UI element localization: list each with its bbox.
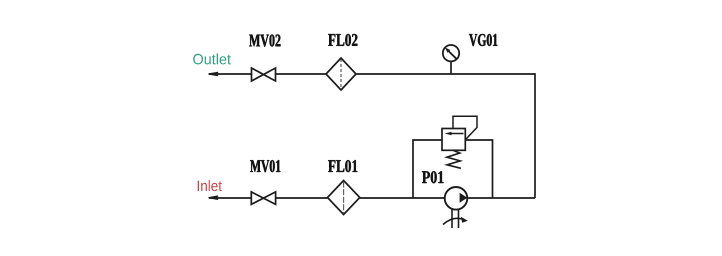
regulator pilot flag bbox=[453, 116, 477, 139]
wire bottom main line segment 1 bbox=[209, 197, 251, 199]
wire regulator loop right bbox=[465, 140, 492, 198]
label MV01 bbox=[250, 160, 280, 172]
filter FL01 diamond bbox=[328, 181, 360, 215]
wire bottom main line segment 3 bbox=[360, 197, 445, 199]
label VG01 bbox=[469, 34, 497, 46]
arrow inlet bbox=[209, 196, 219, 199]
gauge VG01 circle bbox=[443, 45, 459, 61]
label FL02 bbox=[328, 34, 357, 46]
gauge VG01 stem bbox=[450, 62, 452, 75]
pump P01 circle bbox=[445, 187, 468, 210]
arrow outlet bbox=[209, 72, 219, 75]
regulator internal arrow line bbox=[449, 133, 464, 135]
regulator valve box bbox=[442, 129, 465, 151]
text Inlet bbox=[198, 180, 222, 191]
label P01 bbox=[422, 171, 444, 183]
pump leg right bbox=[458, 209, 460, 228]
wire bottom main line segment 2 bbox=[276, 197, 328, 199]
valve MV02 bbox=[252, 68, 276, 81]
wire regulator loop left bbox=[413, 140, 442, 198]
label MV02 bbox=[249, 35, 280, 47]
regulator spring bbox=[447, 151, 461, 169]
wire top main line segment 2 bbox=[276, 73, 327, 75]
wire bottom main line segment 4 bbox=[468, 197, 536, 199]
gauge VG01 needle head bbox=[445, 47, 451, 52]
regulator internal arrow head bbox=[445, 132, 452, 135]
valve MV01 bbox=[251, 192, 275, 205]
pump P01 triangle bbox=[460, 193, 468, 203]
pump leg left bbox=[451, 209, 453, 228]
filter FL02 diamond bbox=[326, 58, 356, 90]
pump rotation arrow head bbox=[461, 217, 468, 223]
text Outlet bbox=[193, 53, 231, 64]
wire top main line segment 3 bbox=[356, 73, 535, 75]
filter FL02 element line bbox=[340, 59, 342, 89]
wire right vertical drop bbox=[534, 73, 536, 198]
filter FL01 element line bbox=[343, 182, 345, 214]
label FL01 bbox=[328, 160, 357, 172]
pump rotation arc bbox=[443, 218, 464, 224]
gauge VG01 needle bbox=[447, 50, 457, 60]
wire top main line segment 1 bbox=[209, 73, 252, 75]
